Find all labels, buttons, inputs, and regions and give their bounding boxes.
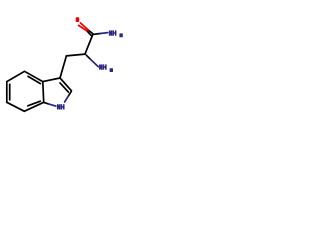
alpha amine NH2 subscript 2 <box>110 68 113 72</box>
bond C-N amide (black half) <box>94 33 100 36</box>
bond C2-N1 (black half) <box>68 92 71 97</box>
amide NH2 subscript 2 <box>119 33 122 37</box>
benzene double bond C5=C6 inner line <box>9 84 11 100</box>
bond C3-Cbeta <box>60 56 66 78</box>
benzene ring outer (C4-C5-C6-C7-C7a-C3a) <box>7 71 44 111</box>
bond N1-C7a (black half) <box>44 103 48 104</box>
alpha amine NH2 label: N H glyph strokes <box>100 64 106 69</box>
benzene double bond C3a=C4 inner line <box>28 76 40 83</box>
bond Calpha-C carbonyl <box>85 35 93 55</box>
bond N1-C7a (blue half) <box>49 104 56 106</box>
C=O double bond black halves <box>88 30 93 34</box>
bond C3=C2 outer <box>60 78 72 91</box>
pyrrole NH label: N H glyph strokes <box>58 104 64 109</box>
bond C2-N1 (blue half) <box>65 96 69 102</box>
bond C3=C2 inner line <box>60 83 68 92</box>
bond Cbeta-Calpha <box>66 54 85 56</box>
benzene double bond C7=C7a inner line <box>28 101 41 106</box>
bond C-N amide (blue half) <box>100 32 107 35</box>
C=O double bond red halves <box>80 23 88 30</box>
bond C3a-C3 <box>43 78 60 82</box>
bond Calpha-N amine (black half) <box>86 55 90 59</box>
O label <box>76 17 80 22</box>
amide NH2 label: N H glyph strokes <box>110 30 116 35</box>
bond Calpha-N amine (blue half) <box>90 59 98 66</box>
